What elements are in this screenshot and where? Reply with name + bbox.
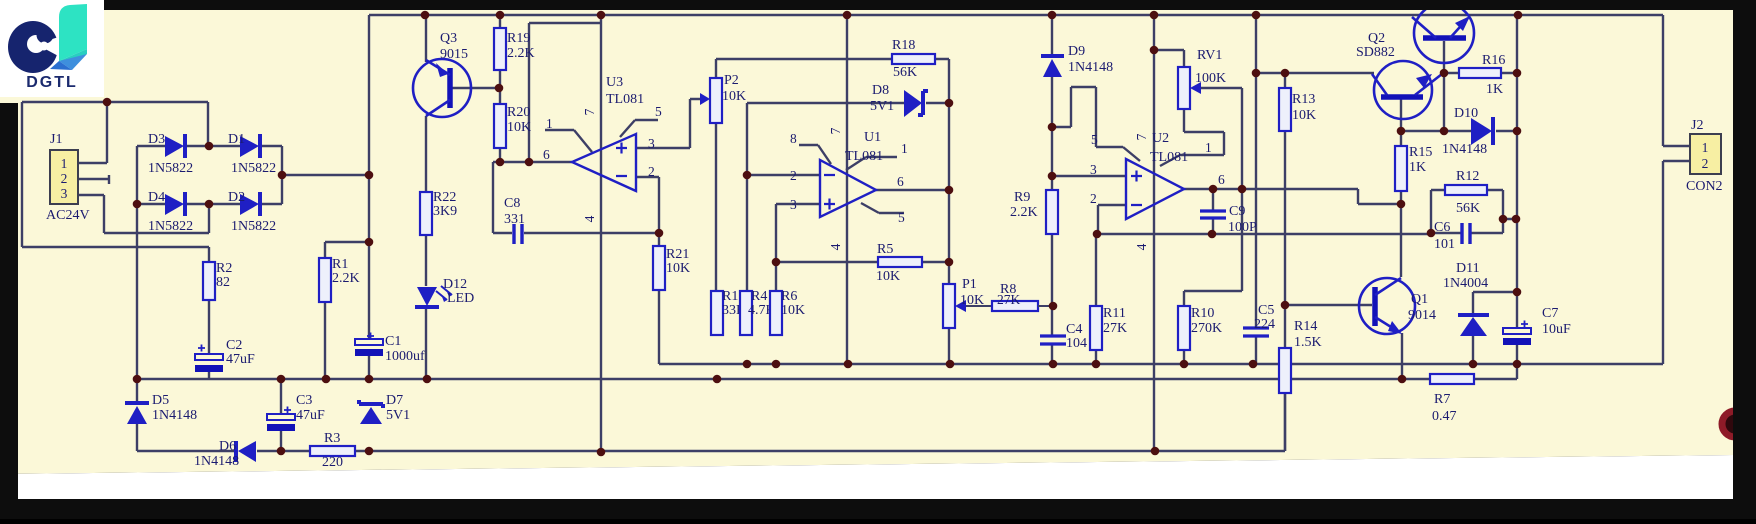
svg-text:6: 6 [897, 174, 904, 189]
svg-text:6: 6 [1218, 172, 1225, 187]
svg-text:R18: R18 [892, 38, 915, 53]
wire U2 pin2 [1098, 205, 1126, 234]
svg-text:1: 1 [546, 116, 553, 131]
wire U3 feedback loop [529, 23, 601, 162]
svg-text:10K: 10K [507, 120, 531, 135]
svg-text:100K: 100K [1195, 71, 1226, 86]
op-amp U2 TL081 [1090, 131, 1225, 250]
transistor Q3 9015 [413, 31, 471, 117]
capacitor C4 104 [1040, 322, 1087, 351]
svg-text:5: 5 [1091, 132, 1098, 147]
svg-text:2.2K: 2.2K [507, 46, 535, 61]
wire U1 pin3 [776, 204, 820, 262]
wire feedback node row y234 [1096, 233, 1431, 235]
svg-text:4: 4 [582, 215, 597, 222]
svg-text:R15: R15 [1409, 145, 1432, 160]
svg-text:R16: R16 [1482, 53, 1505, 68]
connector J2 CON2 [1686, 118, 1723, 194]
svg-text:J1: J1 [50, 132, 62, 147]
svg-text:1N4148: 1N4148 [194, 454, 239, 469]
svg-text:C9: C9 [1229, 204, 1245, 219]
svg-text:3K9: 3K9 [433, 204, 457, 219]
svg-text:1N4148: 1N4148 [152, 408, 197, 423]
wire bottom rail y451 [137, 393, 1285, 451]
wire mid bus y379 [137, 378, 1402, 380]
diode D7 zener 5V1 [359, 393, 410, 424]
wire RV1 wiper rail [1184, 88, 1242, 306]
svg-text:331: 331 [504, 212, 525, 227]
svg-text:R21: R21 [666, 247, 689, 262]
wire U1 supply rail [846, 15, 848, 364]
transistor Q2 SD882 (lower) [1372, 61, 1442, 119]
svg-text:1: 1 [61, 156, 68, 171]
wire C3 stubs [280, 379, 282, 451]
svg-text:P2: P2 [724, 73, 739, 88]
svg-text:CON2: CON2 [1686, 179, 1723, 194]
resistor R5 10K [876, 242, 922, 284]
connector J1 [46, 132, 90, 223]
svg-text:C7: C7 [1542, 306, 1558, 321]
svg-text:SD882: SD882 [1356, 45, 1395, 60]
svg-text:P1: P1 [962, 277, 977, 292]
wire P2 top / R18 row [716, 59, 949, 103]
svg-text:10K: 10K [1292, 108, 1316, 123]
op-amp U3 TL081 [543, 75, 662, 222]
svg-text:3: 3 [790, 197, 797, 212]
svg-text:R4: R4 [751, 289, 767, 304]
diode D2 1N5822 [228, 190, 276, 234]
wire J1 pin1 [78, 102, 107, 163]
svg-text:RV1: RV1 [1197, 48, 1222, 63]
wire Q2 junction column [1401, 41, 1444, 131]
wire U1 pin6 [876, 189, 949, 191]
svg-text:1000uf: 1000uf [385, 349, 425, 364]
wire U2 pin6 output [1184, 189, 1401, 204]
wire J2 pin1 riser [1663, 15, 1690, 146]
wire J1 pin2 stub [78, 175, 109, 184]
svg-text:1K: 1K [1486, 82, 1503, 97]
diode D1 1N5822 [228, 132, 276, 176]
svg-text:D10: D10 [1454, 106, 1478, 121]
capacitor C7 10uF [1503, 306, 1571, 345]
svg-text:10uF: 10uF [1542, 322, 1571, 337]
svg-text:R2: R2 [216, 261, 232, 276]
svg-text:R22: R22 [433, 190, 456, 205]
resistor R22 3K9 [420, 190, 457, 235]
capacitor C2 47uF [195, 338, 255, 372]
svg-text:1: 1 [1702, 140, 1709, 155]
wire Q1 base row [1285, 305, 1372, 348]
svg-text:1N5822: 1N5822 [231, 161, 276, 176]
wire ground bus y364 [659, 161, 1690, 364]
svg-text:56K: 56K [1456, 201, 1480, 216]
svg-text:7: 7 [1134, 133, 1149, 140]
wire U1 pin1 stub [846, 157, 897, 170]
resistor R9 2.2K [1010, 190, 1058, 234]
resistor R14 1.5K [1279, 319, 1322, 393]
wire AC input loop [22, 102, 209, 262]
wire R1 tee [325, 242, 369, 379]
wire U3 pin3 to P2 wiper [636, 99, 706, 148]
svg-text:Q2: Q2 [1368, 31, 1385, 46]
svg-text:4: 4 [1134, 243, 1149, 250]
wire D9/R9 column [1051, 15, 1053, 364]
svg-text:C8: C8 [504, 196, 520, 211]
svg-text:10K: 10K [781, 303, 805, 318]
wire U1 pin5 stub [861, 203, 904, 213]
op-amp U1 TL081 [790, 127, 908, 250]
wire R12 loop [1431, 190, 1503, 233]
resistor R20 10K [494, 104, 531, 148]
svg-text:D4: D4 [148, 190, 165, 205]
svg-text:5V1: 5V1 [386, 408, 410, 423]
svg-text:47uF: 47uF [226, 352, 255, 367]
diode D8 zener 5V1 [870, 83, 928, 117]
svg-text:R3: R3 [324, 431, 340, 446]
svg-text:2: 2 [1702, 156, 1709, 171]
resistor R16 1K [1459, 53, 1505, 97]
svg-text:8: 8 [790, 131, 797, 146]
red stamp [1722, 411, 1748, 437]
svg-text:D2: D2 [228, 190, 245, 205]
svg-text:1: 1 [901, 141, 908, 156]
wire R2 column [208, 300, 210, 379]
resistor R21 10K [653, 246, 690, 290]
svg-text:D5: D5 [152, 393, 169, 408]
svg-text:1: 1 [1205, 140, 1212, 155]
wire right rail x1517 [1516, 15, 1518, 364]
wire D8 row [747, 103, 949, 171]
resistor R19 2.2K [494, 28, 535, 70]
svg-text:101: 101 [1434, 237, 1455, 252]
svg-text:R11: R11 [1103, 306, 1126, 321]
wire bridge left leg [136, 146, 138, 451]
transistor Q1 9014 [1359, 278, 1436, 334]
svg-text:J2: J2 [1691, 118, 1703, 133]
svg-text:TL081: TL081 [1150, 150, 1188, 165]
svg-text:R5: R5 [877, 242, 893, 257]
wire U1 pin2 [747, 171, 820, 291]
svg-text:DGTL: DGTL [26, 74, 78, 91]
wire R16 row [1444, 72, 1517, 74]
svg-text:Q1: Q1 [1411, 292, 1428, 307]
svg-text:R10: R10 [1191, 306, 1214, 321]
svg-text:R12: R12 [1456, 169, 1479, 184]
svg-text:6: 6 [543, 147, 550, 162]
wire R11 column [1095, 234, 1097, 364]
svg-text:1.5K: 1.5K [1294, 335, 1322, 350]
wire P2 bottom [715, 123, 717, 291]
svg-text:10K: 10K [666, 261, 690, 276]
wire bridge row1 [137, 146, 282, 175]
wire C9 stubs [1212, 189, 1214, 234]
svg-text:U3: U3 [606, 75, 623, 90]
wire R14 bottom [1284, 393, 1286, 451]
resistor R10 270K [1178, 306, 1222, 350]
svg-text:1N4004: 1N4004 [1443, 276, 1488, 291]
wire R13 column [1284, 73, 1286, 305]
wire U3 pin2 [636, 177, 659, 246]
diode D11 1N4004 [1443, 261, 1489, 336]
svg-text:4: 4 [828, 243, 843, 250]
wire C5 column [1255, 15, 1257, 364]
svg-text:D7: D7 [386, 393, 403, 408]
wire Q1 leads [1401, 204, 1402, 379]
wire R21 bottom [658, 290, 660, 364]
svg-text:R7: R7 [1434, 392, 1450, 407]
wire U2 pin5 staircase [1052, 87, 1140, 161]
svg-text:U2: U2 [1152, 131, 1169, 146]
wire D11 branch [1473, 292, 1517, 364]
wire Q2 base row y73 [1256, 72, 1374, 74]
diode D6 1N4148 [194, 439, 256, 469]
svg-text:R20: R20 [507, 105, 530, 120]
svg-text:104: 104 [1066, 336, 1087, 351]
svg-text:7: 7 [828, 127, 843, 134]
svg-text:R13: R13 [1292, 92, 1315, 107]
svg-text:D6: D6 [219, 439, 236, 454]
capacitor C1 1000uf [355, 333, 425, 365]
svg-text:3: 3 [648, 136, 655, 151]
wire R7 row [1402, 364, 1517, 379]
capacitor C3 47uF [267, 393, 325, 431]
svg-text:100P: 100P [1228, 220, 1257, 235]
svg-text:R9: R9 [1014, 190, 1030, 205]
resistor R17 33R [711, 289, 746, 335]
diode D9 1N4148 [1041, 44, 1113, 77]
svg-text:1N4148: 1N4148 [1068, 60, 1113, 75]
svg-text:1K: 1K [1409, 160, 1426, 175]
resistor R1 2.2K [319, 257, 360, 302]
capacitor C6 101 [1434, 220, 1470, 252]
svg-text:0.47: 0.47 [1432, 409, 1457, 424]
LED D12 [415, 277, 474, 307]
svg-text:2.2K: 2.2K [1010, 205, 1038, 220]
svg-text:D8: D8 [872, 83, 889, 98]
diode D4 1N5822 [148, 190, 193, 234]
svg-text:9014: 9014 [1408, 308, 1436, 323]
svg-text:AC24V: AC24V [46, 208, 90, 223]
svg-text:224: 224 [1254, 317, 1275, 332]
svg-text:220: 220 [322, 455, 343, 470]
svg-text:1N5822: 1N5822 [148, 161, 193, 176]
svg-text:1N5822: 1N5822 [148, 219, 193, 234]
wire J1 pin3 [78, 195, 209, 233]
wire RV1 top link [1154, 50, 1184, 67]
potentiometer RV1 100K [1178, 48, 1226, 109]
resistor R12 56K [1445, 169, 1487, 216]
svg-text:C2: C2 [226, 338, 242, 353]
svg-text:10K: 10K [876, 269, 900, 284]
svg-text:2: 2 [61, 171, 68, 186]
wire U3 supply rail [600, 15, 602, 451]
wire U2 supply rail [1153, 15, 1155, 451]
svg-text:7: 7 [582, 108, 597, 115]
svg-text:2.2K: 2.2K [332, 271, 360, 286]
diode D3 1N5822 [148, 132, 193, 176]
svg-text:27K: 27K [1103, 321, 1127, 336]
resistor R11 27K [1090, 306, 1127, 350]
wire bridge output [282, 174, 369, 176]
wire R5 row [776, 262, 949, 291]
wire U3 pin6 node [493, 161, 572, 163]
svg-text:10K: 10K [960, 293, 984, 308]
diode D5 1N4148 [125, 393, 197, 424]
svg-text:TL081: TL081 [845, 149, 883, 164]
svg-text:D12: D12 [443, 277, 467, 292]
wire R19/R20 column [499, 15, 501, 162]
svg-text:C3: C3 [296, 393, 312, 408]
svg-text:U1: U1 [864, 130, 881, 145]
resistor R6 10K [770, 289, 805, 335]
svg-text:Q3: Q3 [440, 31, 457, 46]
svg-text:R1: R1 [332, 257, 348, 272]
svg-text:3: 3 [61, 186, 68, 201]
svg-text:47uF: 47uF [296, 408, 325, 423]
svg-text:5: 5 [898, 210, 905, 225]
svg-text:3: 3 [1090, 162, 1097, 177]
wire Q3 column [425, 15, 427, 379]
svg-text:D3: D3 [148, 132, 165, 147]
resistor R3 220 [310, 431, 355, 470]
svg-text:1N5822: 1N5822 [231, 219, 276, 234]
wire top bus [369, 14, 1663, 16]
wire Q3 base [452, 87, 500, 89]
wire U3 pin1 stub [545, 130, 592, 152]
svg-text:9015: 9015 [440, 47, 468, 62]
svg-text:C4: C4 [1066, 322, 1082, 337]
DGTL logo [0, 0, 104, 97]
svg-text:R14: R14 [1294, 319, 1317, 334]
potentiometer P2 10K [700, 73, 746, 123]
svg-text:R19: R19 [507, 31, 530, 46]
wire +V column [368, 15, 370, 379]
svg-text:2: 2 [790, 168, 797, 183]
svg-text:5V1: 5V1 [870, 99, 894, 114]
capacitor C8 331 [504, 196, 525, 244]
wire C8 branch [493, 162, 659, 233]
potentiometer P1 10K [943, 277, 992, 328]
diode D10 1N4148 [1442, 106, 1493, 157]
svg-text:2: 2 [648, 164, 655, 179]
svg-text:5: 5 [655, 104, 662, 119]
wire U2 pin1 to RV1 [1160, 109, 1224, 166]
svg-text:1N4148: 1N4148 [1442, 142, 1487, 157]
svg-text:82: 82 [216, 275, 230, 290]
resistor R15 1K [1395, 145, 1432, 191]
svg-text:C6: C6 [1434, 220, 1450, 235]
svg-text:2: 2 [1090, 191, 1097, 206]
svg-text:D1: D1 [228, 132, 245, 147]
svg-text:270K: 270K [1191, 321, 1222, 336]
wire C6 row [1431, 219, 1517, 233]
resistor R8 27K [992, 282, 1052, 311]
wire U1 pin8 stub [799, 145, 831, 164]
wire R15 stubs [1400, 131, 1402, 204]
svg-text:D9: D9 [1068, 44, 1085, 59]
svg-text:D11: D11 [1456, 261, 1480, 276]
wire D10 row [1401, 130, 1517, 132]
transistor Q2 SD882 (upper) [1356, 3, 1474, 63]
wire mid rail x949 [948, 103, 950, 364]
resistor R7 0.47 [1430, 374, 1474, 424]
svg-text:TL081: TL081 [606, 92, 644, 107]
svg-text:27K: 27K [997, 292, 1021, 307]
resistor R4 4.7K [740, 289, 776, 335]
wire bridge row2 [137, 175, 282, 204]
capacitor C9 100P [1200, 204, 1257, 235]
resistor R13 10K [1279, 88, 1316, 131]
svg-text:LED: LED [447, 291, 474, 306]
wire U3 pin5 stub [620, 120, 658, 137]
resistor R18 56K [892, 38, 935, 80]
svg-text:R6: R6 [781, 289, 797, 304]
wire R10 bottom [1183, 350, 1185, 364]
frame bars [104, 0, 1756, 10]
svg-text:C1: C1 [385, 334, 401, 349]
capacitor C5 224 [1243, 303, 1275, 336]
wire U2 pin3 [1052, 175, 1126, 177]
svg-text:C5: C5 [1258, 303, 1274, 318]
svg-text:56K: 56K [893, 65, 917, 80]
svg-text:10K: 10K [722, 89, 746, 104]
resistor R2 82 [203, 261, 232, 300]
